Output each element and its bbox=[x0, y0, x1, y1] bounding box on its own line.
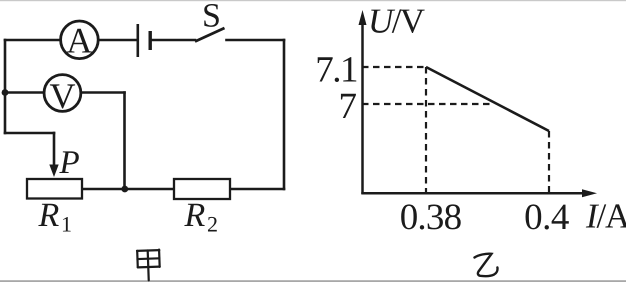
battery cell bbox=[138, 24, 150, 57]
dashed line I=0.38 bbox=[425, 67, 427, 193]
svg-text:0.4: 0.4 bbox=[524, 197, 569, 238]
voltmeter V1 bbox=[44, 75, 81, 116]
wire bottom right (R2 to corner) bbox=[230, 188, 284, 191]
scan border bottom bbox=[0, 280, 626, 282]
wire voltmeter down to junction bbox=[123, 93, 126, 189]
wire junction to voltmeter bbox=[5, 91, 43, 94]
wire battery to switch bbox=[152, 39, 196, 42]
rheostat R1 bbox=[27, 145, 82, 236]
junction node (bottom wire / voltmeter) bbox=[121, 186, 128, 193]
svg-text:7: 7 bbox=[339, 86, 358, 127]
label 甲 (diagram A) bbox=[137, 250, 160, 281]
graph axes bbox=[361, 23, 585, 194]
x axis arrowhead bbox=[582, 189, 597, 197]
dashed line I=0.4 bbox=[548, 131, 550, 193]
wire switch contact to top-right corner bbox=[227, 39, 285, 42]
label 乙 (diagram B) bbox=[475, 254, 498, 276]
resistor R2 bbox=[174, 179, 230, 236]
x axis bbox=[361, 192, 585, 195]
wire ammeter to battery bbox=[100, 39, 137, 42]
svg-text:R: R bbox=[184, 197, 206, 234]
svg-text:U/V: U/V bbox=[368, 2, 425, 41]
wire top-left horizontal to ammeter bbox=[5, 39, 60, 42]
svg-text:V: V bbox=[49, 76, 75, 116]
svg-text:P: P bbox=[59, 145, 80, 181]
svg-text:2: 2 bbox=[207, 211, 218, 236]
wire slider vertical bbox=[53, 133, 56, 166]
dashed line U=7.1 bbox=[362, 66, 426, 68]
y axis bbox=[361, 23, 364, 194]
svg-text:R: R bbox=[38, 197, 60, 234]
y axis arrowhead bbox=[359, 10, 367, 25]
svg-text:7.1: 7.1 bbox=[315, 50, 357, 91]
wire voltmeter right horizontal bbox=[82, 91, 125, 94]
wire R1 to junction to R2 bbox=[82, 188, 174, 191]
svg-text:I/A: I/A bbox=[585, 197, 626, 236]
svg-text:A: A bbox=[66, 21, 92, 61]
wire to slider horizontal bbox=[5, 132, 54, 135]
switch S bbox=[195, 0, 225, 42]
U-I characteristic line bbox=[426, 67, 549, 131]
wire left vertical bbox=[4, 40, 7, 133]
dashed line U=7 bbox=[362, 103, 491, 105]
wire right vertical bbox=[283, 40, 286, 189]
svg-text:0.38: 0.38 bbox=[400, 197, 462, 238]
slider arrow P bbox=[49, 165, 58, 178]
scan border top bbox=[0, 0, 626, 1]
junction node (left wire / voltmeter) bbox=[2, 89, 9, 96]
ammeter A1 bbox=[61, 21, 99, 61]
svg-text:1: 1 bbox=[61, 211, 72, 236]
svg-text:S: S bbox=[202, 0, 221, 35]
dashed guide lines bbox=[362, 67, 549, 193]
